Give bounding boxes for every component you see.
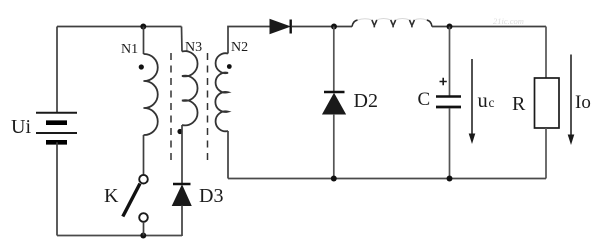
wire: inductor to R corner — [432, 26, 546, 28]
svg-text:C: C — [418, 89, 431, 110]
wire: N2 top lead — [228, 27, 271, 54]
wire: N3 top lead — [181, 27, 184, 52]
wire: N3 to D3 lead — [181, 125, 183, 184]
transformer winding N1 — [144, 54, 158, 135]
svg-text:N1: N1 — [121, 42, 138, 57]
node: junction at switch bottom — [140, 233, 146, 239]
node: junction at C bottom — [447, 176, 453, 182]
polarity dot N3 — [177, 129, 182, 134]
wire: diode to inductor — [292, 26, 353, 28]
battery source Ui — [36, 113, 77, 143]
svg-text:R: R — [512, 93, 526, 115]
svg-text:K: K — [104, 185, 119, 207]
capacitor C plates — [436, 97, 461, 108]
switch K lower contact — [139, 213, 148, 222]
wire: primary top rail — [57, 26, 182, 28]
wire: D2 lower lead — [333, 114, 335, 179]
voltage arrow u_c — [469, 59, 476, 144]
switch K blade — [123, 184, 140, 217]
transformer core dashed line right — [207, 53, 209, 162]
wire: C lower lead — [449, 108, 451, 178]
svg-text:u: u — [478, 90, 488, 112]
switch K upper contact — [139, 175, 148, 184]
current arrow Io — [568, 55, 575, 146]
inductor L dark strokes — [352, 20, 432, 28]
wire: N1 top lead — [143, 27, 145, 55]
transformer winding N3 — [182, 51, 198, 125]
svg-text:21ic.com: 21ic.com — [493, 16, 524, 26]
wire: D3 bottom lead — [181, 206, 183, 237]
resistor R body — [535, 78, 560, 128]
wire: left rail upper segment — [56, 27, 58, 114]
inductor L loop tops (light) — [358, 19, 427, 21]
node: junction at D2 top — [331, 24, 337, 30]
svg-text:Ui: Ui — [11, 116, 31, 138]
rectifier diode cathode bar — [290, 20, 292, 34]
wire: left rail lower segment — [56, 142, 58, 235]
node: junction at D2 bottom — [331, 176, 337, 182]
wire: R upper lead — [545, 27, 547, 79]
transformer winding N2 — [215, 53, 228, 131]
capacitor polarity plus — [440, 78, 447, 85]
node: junction at N1 top — [140, 24, 146, 30]
diode D2 cathode bar — [324, 91, 345, 93]
transformer core dashed line left — [170, 53, 172, 162]
svg-text:c: c — [489, 95, 495, 110]
svg-text:D2: D2 — [354, 90, 378, 112]
svg-text:N2: N2 — [231, 40, 248, 55]
wire: primary bottom rail — [57, 235, 182, 237]
svg-text:Io: Io — [575, 92, 591, 113]
wire: D2 upper lead — [333, 27, 335, 92]
polarity dot N2 — [227, 64, 232, 69]
svg-text:N3: N3 — [185, 40, 202, 55]
diode D3 triangle — [173, 186, 192, 206]
wire: secondary bottom rail — [228, 178, 546, 180]
wire: R lower lead — [545, 128, 547, 179]
polarity dot N1 — [139, 64, 144, 69]
svg-text:D3: D3 — [199, 185, 223, 207]
switch K lower lead — [143, 222, 145, 236]
diode D3 cathode bar — [173, 183, 191, 185]
node: junction at C top — [447, 24, 453, 30]
diode D2 triangle — [323, 94, 346, 114]
wire: N2 bottom lead — [227, 131, 229, 179]
wire: C upper lead — [449, 27, 451, 96]
switch K upper lead — [143, 135, 145, 175]
rectifier diode triangle (top) — [270, 20, 290, 34]
